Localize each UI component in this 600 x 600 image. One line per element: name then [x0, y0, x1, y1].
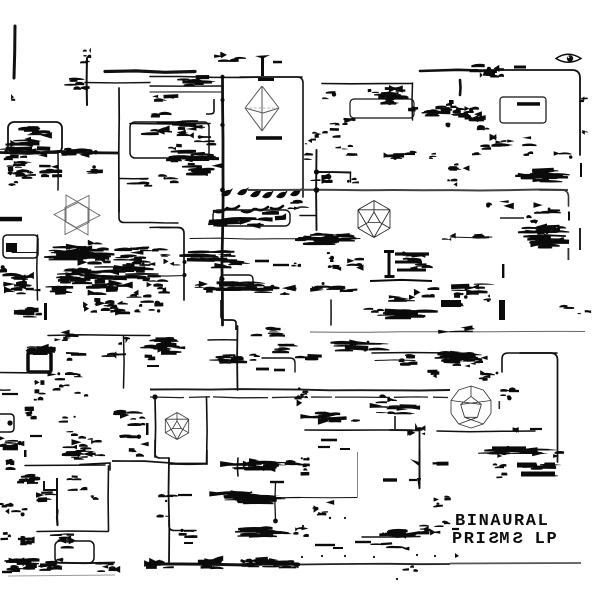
- junction v4a: [221, 98, 225, 102]
- glitch blob cluster: [209, 281, 265, 291]
- glitch blob cluster: [9, 181, 19, 186]
- glitch blob cluster: [59, 416, 76, 423]
- glitch blob cluster: [21, 536, 35, 543]
- glitch dash: [147, 365, 159, 367]
- box B5: [220, 275, 253, 290]
- glitch blob cluster: [431, 106, 452, 115]
- junction v4c: [220, 258, 224, 262]
- glitch blob cluster: [295, 354, 322, 360]
- glitch blob cluster: [249, 354, 260, 361]
- dash stack b: [87, 165, 103, 174]
- glitch dash: [30, 435, 42, 437]
- tick under text: [455, 553, 459, 558]
- glitch blob cluster: [113, 410, 143, 419]
- wire H14: [119, 178, 148, 180]
- glitch blob cluster: [59, 148, 72, 156]
- glitch blob cluster: [18, 307, 42, 316]
- wire pipe x155: [154, 397, 157, 457]
- glitch blob cluster: [311, 173, 333, 184]
- long line y397: [150, 397, 448, 398]
- glitch dash: [355, 541, 371, 543]
- glitch blob cluster: [0, 265, 7, 273]
- glitch blob cluster: [554, 151, 573, 159]
- glitch dot: [329, 517, 331, 519]
- glitch blob cluster: [280, 287, 296, 295]
- marks above small box: [50, 533, 74, 543]
- glitch lambda marks: [214, 52, 246, 62]
- glitch dash: [321, 439, 337, 442]
- glitch blob cluster: [312, 132, 321, 138]
- glitch dash: [514, 66, 526, 69]
- heavy blob left: [4, 558, 39, 573]
- wedge in bars: [536, 462, 545, 472]
- glitch blob cluster: [168, 144, 182, 150]
- glitch cluster left: [7, 161, 32, 177]
- wire V9 stub: [349, 172, 351, 182]
- glitch blob cluster: [177, 130, 194, 139]
- glitch blob cluster: [457, 111, 486, 121]
- glitch blob cluster: [346, 153, 358, 156]
- junction v4b: [220, 123, 224, 127]
- glitch blob cluster: [340, 288, 358, 292]
- glitch blob cluster: [73, 373, 84, 377]
- glitch OZZ: [523, 234, 569, 247]
- glitch blob cluster: [322, 128, 340, 138]
- glitch blob cluster: [364, 308, 385, 313]
- glitch blob cluster: [62, 451, 93, 460]
- glitch dot: [344, 555, 346, 557]
- big box top edge: [112, 461, 207, 464]
- junction on V15b: [183, 273, 187, 277]
- corner small: [262, 358, 295, 372]
- wire V down to long line: [236, 326, 238, 390]
- glitch blob cluster: [152, 94, 178, 102]
- glitch blob cluster: [166, 154, 195, 165]
- glitch junction blobs: [209, 354, 247, 364]
- glitch blob cluster: [473, 234, 490, 239]
- black rect top: [441, 300, 461, 307]
- glitch blob cluster: [24, 406, 36, 419]
- glitch blobs near eye wire: [470, 64, 497, 77]
- glitch blob cluster: [7, 558, 29, 571]
- glitch blob cluster: [140, 300, 163, 312]
- wire H y152: [0, 151, 118, 153]
- glitch blob cluster: [447, 179, 457, 187]
- glitch blob cluster: [87, 240, 109, 251]
- wire box top edge: [322, 83, 412, 85]
- glitch blob cluster: [61, 537, 76, 549]
- arrows cluster: [300, 411, 340, 424]
- glitch blob cluster: [4, 148, 37, 160]
- glitch blob cluster: [68, 487, 88, 491]
- glitch blob cluster: [152, 248, 170, 257]
- wire big box bottom: [37, 530, 108, 533]
- glitch dash: [509, 390, 519, 392]
- glitch blob cluster: [304, 153, 313, 160]
- wire H branch b: [150, 91, 222, 93]
- glitch blob cluster: [55, 330, 79, 342]
- glitch blob cluster: [122, 260, 155, 272]
- glitch blob cluster: [385, 85, 409, 98]
- glitch dash: [256, 136, 282, 140]
- glitch blob cluster: [128, 416, 146, 426]
- glitch dash: [340, 448, 350, 450]
- glitch blob cluster: [579, 96, 588, 102]
- glitch blob cluster: [388, 295, 415, 302]
- three-plane star polyhedron: [54, 195, 100, 235]
- glitch on B6 bottom: [208, 217, 273, 229]
- wire H branch a: [150, 85, 222, 87]
- glitch dot: [302, 525, 304, 527]
- wire H497 right: [300, 497, 357, 499]
- arrow on V419: [410, 459, 419, 466]
- glitch heavy 2: [518, 224, 569, 235]
- glitch blob cluster: [107, 302, 130, 315]
- wire corner x184 down: [160, 228, 184, 301]
- wire V16: [36, 235, 39, 300]
- glitch blob cluster: [0, 435, 24, 451]
- glitch dot: [7, 420, 12, 425]
- long bottom line right: [300, 563, 450, 566]
- glitch blob cluster: [376, 394, 397, 403]
- glitch blob cluster: [188, 167, 214, 172]
- glitch blob cluster: [480, 144, 491, 149]
- drip a: [34, 380, 44, 385]
- eye symbol: [556, 54, 581, 62]
- glitch blob cluster: [560, 305, 575, 309]
- glitch blob cluster: [437, 351, 474, 362]
- glitch >= marks: [220, 458, 293, 472]
- glitch heavy streaks right: [435, 351, 482, 364]
- glitch on H6: [157, 120, 199, 126]
- wire H y340: [208, 339, 237, 341]
- glitch blob cluster: [145, 355, 156, 361]
- glitch dash: [333, 547, 343, 549]
- glitch blob cluster: [347, 258, 364, 271]
- glitch blob cluster: [490, 134, 507, 147]
- glitch blob cluster: [62, 449, 95, 458]
- icosahedron U3: [358, 201, 390, 238]
- glitch blob cluster: [433, 503, 443, 508]
- glitch blob cluster: [402, 252, 426, 261]
- glitch blob cluster: [526, 215, 538, 224]
- glitch blob cluster: [480, 70, 498, 78]
- glitch dash: [315, 544, 335, 546]
- corner right box: [502, 353, 557, 372]
- glitch blob cluster: [404, 151, 417, 155]
- glitch wave2: [331, 340, 390, 352]
- wire H under solid box: [0, 372, 50, 374]
- glitch blob cluster: [371, 542, 410, 550]
- wire box right x206: [206, 397, 209, 464]
- glitch in B1: [18, 126, 52, 138]
- wire V419 lower: [419, 450, 421, 488]
- junction: [220, 188, 225, 193]
- glitch blob cluster: [285, 460, 302, 465]
- box B1: [8, 122, 62, 153]
- wire V2: [86, 58, 88, 105]
- glitch blob cluster: [91, 495, 99, 500]
- glitch blob cluster: [257, 559, 290, 567]
- glitch blob cluster: [211, 258, 250, 269]
- wire right box corner: [495, 70, 580, 155]
- glitch blob cluster: [448, 163, 469, 171]
- glitch blob cluster: [335, 145, 353, 150]
- glitch mark above V2: [83, 48, 91, 57]
- glitch OZ cluster: [209, 490, 285, 504]
- glitch dash: [395, 252, 429, 255]
- wire H top bus to corner: [150, 76, 302, 79]
- glitch blob cluster: [196, 556, 224, 567]
- glitch blob cluster: [288, 200, 309, 210]
- glitch blob cluster: [384, 152, 405, 160]
- short bar V12: [459, 80, 462, 95]
- junction v4d: [221, 277, 225, 281]
- glitch blob cluster: [578, 310, 591, 314]
- glitch dash: [500, 217, 524, 218]
- glitch blob cluster: [96, 300, 123, 311]
- glitch blob cluster: [493, 463, 507, 468]
- glitch blob cluster: [53, 534, 73, 542]
- glitch blob cluster: [240, 559, 259, 568]
- box B3: [500, 97, 546, 123]
- bracket hook: [206, 99, 214, 114]
- heavy dash left: [0, 217, 22, 222]
- glitch blob cluster: [295, 237, 308, 241]
- glitch blob cluster: [258, 211, 286, 220]
- wire H536: [362, 536, 420, 539]
- pipe corner y530: [169, 520, 196, 531]
- glitch blob cluster: [225, 495, 277, 504]
- dash stack: [39, 165, 62, 178]
- glitch blob cluster: [500, 394, 511, 400]
- glitch blob cluster: [291, 263, 301, 267]
- glitch dot: [416, 554, 418, 556]
- glitch blob cluster: [171, 150, 219, 162]
- glitch blob cluster: [62, 148, 89, 157]
- glitch above solid box: [26, 344, 56, 354]
- glitch blob cluster: [0, 147, 17, 154]
- glitch blob cluster: [0, 532, 10, 540]
- glitch blob cluster: [534, 202, 561, 214]
- glitch blob cluster: [157, 514, 170, 517]
- glitch blob cluster: [424, 528, 436, 536]
- glitch dash: [2, 571, 12, 573]
- glitch blob cluster: [452, 302, 463, 306]
- glitch dot: [344, 517, 346, 519]
- wire V x331: [330, 300, 332, 325]
- glitch dash: [395, 261, 422, 264]
- glitch blob cluster: [0, 503, 13, 515]
- glitch blob cluster: [536, 225, 567, 234]
- wire H second: [85, 82, 150, 84]
- streak dashes: [377, 309, 437, 320]
- pipe junction blobs: [158, 494, 178, 502]
- long gray line y190: [248, 190, 568, 191]
- glitch wave arcs: [214, 206, 283, 212]
- wire box right edge: [411, 83, 414, 120]
- wire thin H y237: [450, 236, 492, 239]
- glitch blob cluster: [496, 473, 507, 479]
- glitch blob cluster: [490, 65, 504, 78]
- glitch blob cluster: [269, 558, 299, 568]
- glitch blob cluster: [201, 559, 224, 569]
- glitch dash: [178, 494, 192, 496]
- glitch blob cluster: [67, 475, 82, 480]
- glitch heavy near box: [374, 85, 405, 105]
- wire box bottom y464: [170, 463, 207, 465]
- dash above octahedron: [258, 78, 274, 81]
- corner x419 down: [390, 430, 420, 488]
- glitch blob cluster: [17, 474, 35, 484]
- glitch dash: [270, 481, 284, 483]
- wire H16: [12, 252, 37, 254]
- glitch blob cluster: [532, 168, 561, 180]
- glitch blob cluster: [524, 151, 534, 156]
- glitch blob cluster: [74, 392, 88, 397]
- glitch blob cluster: [127, 178, 152, 186]
- glitch blob cluster: [86, 284, 118, 296]
- glitch dash: [2, 393, 18, 395]
- glitch blob cluster: [146, 558, 164, 566]
- glitch dash: [273, 264, 289, 266]
- glitch blob cluster: [407, 429, 425, 436]
- wire corner V14: [119, 200, 150, 223]
- glitch dash: [383, 478, 397, 481]
- heavy dash under: [492, 446, 526, 449]
- glitch blob cluster: [22, 171, 36, 180]
- glitch blob cluster: [182, 163, 224, 176]
- glitch dash: [274, 369, 285, 372]
- wire H353: [372, 352, 450, 355]
- glitch blob cluster: [158, 174, 178, 183]
- glitch dot: [434, 555, 436, 557]
- glitch blob cluster: [38, 565, 62, 571]
- glitch blob cluster: [283, 527, 299, 534]
- glitch blob cluster: [56, 268, 95, 284]
- wire H9: [316, 171, 350, 174]
- glitch blob cluster: [297, 527, 309, 537]
- glitch zone under cube: [49, 246, 115, 261]
- box B2 inner: [350, 99, 414, 118]
- glitch blob cluster: [553, 451, 564, 458]
- wire stub left: [0, 389, 10, 391]
- glitch blob cluster: [46, 286, 74, 295]
- glitch blob cluster: [472, 152, 481, 155]
- wire H18: [48, 334, 150, 337]
- glitch blob cluster: [44, 244, 92, 260]
- glitch blob cluster: [446, 100, 456, 108]
- corner blob small box: [45, 558, 63, 570]
- I-beam a: [327, 252, 341, 271]
- glitch blob cluster: [127, 290, 152, 298]
- bracket lower-left: [0, 414, 14, 432]
- glitch blob cluster: [523, 464, 562, 470]
- glitch dot: [496, 372, 499, 375]
- arrows cluster bottom: [388, 529, 420, 538]
- glitch blob cluster: [314, 234, 349, 245]
- corner end y190: [540, 190, 569, 206]
- glitch blob cluster: [113, 246, 155, 260]
- glitch blob cluster: [119, 435, 148, 447]
- glitch blob cluster: [272, 344, 297, 354]
- glitch wavy y238: [303, 233, 356, 245]
- glitch wavy right: [422, 107, 450, 116]
- glitch blob cluster: [251, 327, 285, 337]
- line y563 left segment: [52, 562, 115, 565]
- wire big box left edge: [107, 466, 109, 531]
- glitch blob cluster: [322, 91, 336, 99]
- glitch blob cluster: [347, 178, 359, 184]
- glitch blob cluster: [147, 279, 170, 293]
- long line y390: [150, 389, 450, 390]
- glitch diagonal streaks: [451, 106, 479, 122]
- wire H360: [375, 359, 415, 362]
- glitch blob cluster: [63, 439, 92, 449]
- glitch blob cluster: [118, 336, 130, 345]
- thick dash in B3: [517, 102, 540, 106]
- wire H465: [25, 464, 105, 467]
- glitch blob cluster: [237, 461, 286, 471]
- wire H top bus left: [105, 71, 195, 72]
- glitch blob cluster: [429, 153, 436, 159]
- bar a: [517, 463, 555, 468]
- wire H15b lead: [150, 222, 178, 225]
- glitch blob cluster: [109, 566, 121, 573]
- J hook: [44, 478, 57, 514]
- glitch blob cluster: [78, 253, 111, 266]
- glitch blob cluster: [179, 529, 198, 538]
- glitch blob cluster: [18, 537, 33, 545]
- glitch blob cluster: [317, 511, 328, 515]
- glitch blob cluster: [194, 140, 216, 145]
- glitch blob cluster: [463, 357, 480, 365]
- glitch blob cluster: [84, 265, 158, 279]
- glitch blob cluster: [414, 287, 439, 297]
- long bottom line gray: [450, 562, 581, 565]
- glitch blob cluster: [351, 419, 360, 421]
- glitch blob cluster: [94, 276, 132, 288]
- junction blob2: [314, 187, 320, 193]
- pipe step: [155, 440, 169, 458]
- title text PRISMS LP: [452, 531, 558, 549]
- glitch blob cluster: [438, 325, 475, 333]
- glitch blob cluster: [434, 496, 451, 502]
- glitch blob cluster: [21, 149, 47, 157]
- glitch in B1b: [141, 125, 172, 135]
- glitch blob cluster: [65, 267, 104, 281]
- wire corner to V5: [240, 77, 303, 197]
- glitch blob cluster: [313, 500, 335, 513]
- glitch blob cluster: [129, 448, 144, 457]
- bar b: [521, 472, 555, 477]
- glitch blob cluster: [343, 118, 355, 124]
- wire H17: [148, 275, 185, 278]
- glitch blob cluster: [491, 141, 508, 147]
- box B1b: [130, 122, 209, 158]
- glitch blob cluster: [330, 123, 348, 126]
- glitch dash: [397, 269, 426, 272]
- solid box with border: [28, 352, 51, 372]
- glitch dot: [321, 555, 323, 557]
- drip b: [34, 389, 46, 400]
- glitch dash: [530, 428, 542, 430]
- glitch blob cluster: [83, 298, 100, 313]
- glitch blob cluster: [164, 259, 181, 266]
- glitch blob cluster: [490, 451, 506, 457]
- glitch under V1: [11, 94, 15, 101]
- glitch blob cluster: [433, 462, 449, 466]
